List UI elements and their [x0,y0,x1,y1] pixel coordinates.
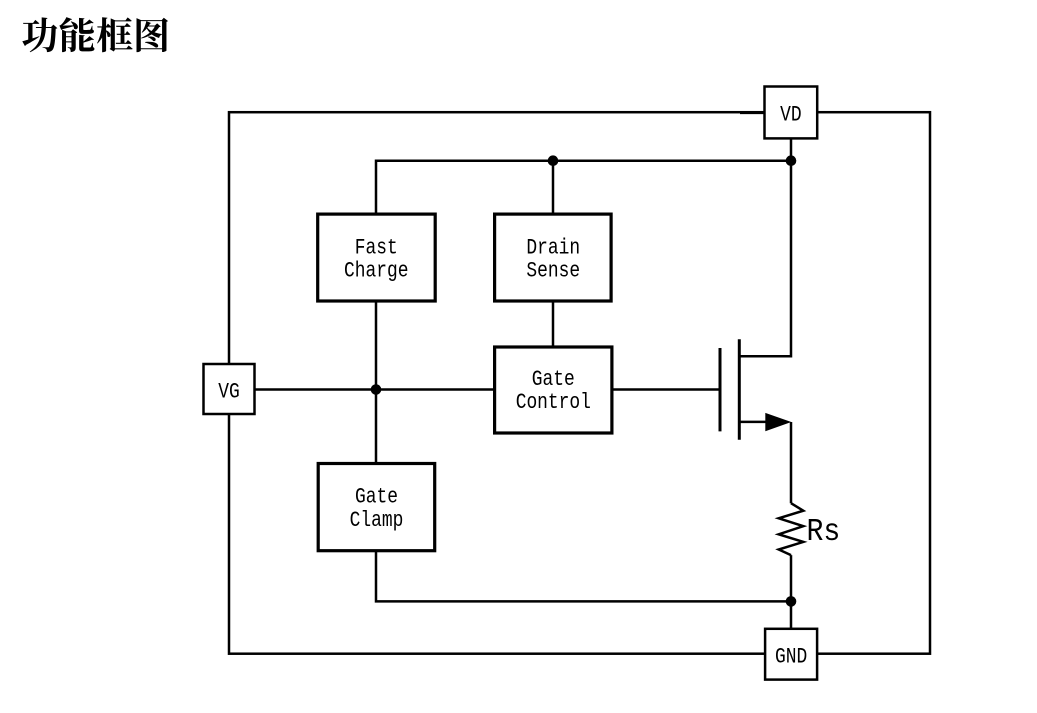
svg-text:GND: GND [775,645,807,670]
svg-text:Charge: Charge [344,259,408,284]
svg-text:VD: VD [780,103,801,128]
svg-text:Control: Control [516,390,591,415]
svg-text:VG: VG [218,380,239,405]
svg-text:Sense: Sense [526,259,580,284]
svg-text:Rs: Rs [807,514,841,550]
svg-text:Gate: Gate [355,485,398,510]
svg-text:Clamp: Clamp [350,509,404,534]
svg-text:Drain: Drain [526,236,580,261]
svg-text:Gate: Gate [532,368,575,393]
svg-text:Fast: Fast [355,236,398,261]
